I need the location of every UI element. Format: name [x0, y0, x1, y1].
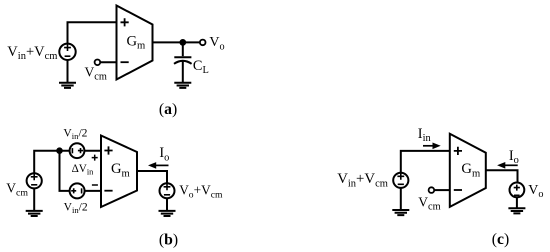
- voltage source V7 (Vo): [510, 183, 525, 198]
- node Vcm terminal: [95, 60, 101, 66]
- wire: [182, 42, 184, 56]
- svg-text:Io: Io: [509, 148, 519, 166]
- wire: [486, 170, 518, 182]
- op-amp U1 Gm: [117, 6, 153, 80]
- node plus mark: [92, 155, 98, 161]
- arrow Iin: [423, 145, 434, 147]
- svg-text:Gm: Gm: [111, 161, 131, 179]
- svg-text:Vo+Vcm: Vo+Vcm: [179, 182, 223, 200]
- wire: [67, 60, 69, 83]
- ground: [392, 210, 409, 215]
- svg-text:(b): (b): [159, 231, 178, 248]
- svg-text:Vcm: Vcm: [85, 64, 107, 82]
- node B: [56, 147, 63, 154]
- ground: [26, 211, 43, 216]
- voltage source V1 (Vin+Vcm): [59, 44, 75, 60]
- arrow Io: [504, 164, 518, 166]
- node minus mark: [92, 184, 98, 186]
- wire: [400, 188, 402, 210]
- ground: [59, 83, 76, 88]
- voltage source V6 (Vin+Vcm): [393, 173, 408, 188]
- wire: [153, 41, 200, 43]
- ground: [508, 208, 525, 213]
- svg-text:Io: Io: [159, 145, 169, 163]
- svg-text:Iin: Iin: [418, 126, 432, 144]
- wire: [182, 61, 184, 82]
- wire: [34, 151, 69, 174]
- node Vo terminal: [200, 40, 206, 46]
- wire: [100, 61, 116, 63]
- svg-text:ΔVin: ΔVin: [72, 163, 95, 177]
- svg-text:Vin+Vcm: Vin+Vcm: [7, 44, 57, 62]
- wire: [68, 22, 117, 43]
- ground: [159, 211, 176, 216]
- svg-text:Gm: Gm: [461, 161, 481, 179]
- node Vcm terminal: [429, 187, 435, 193]
- node A: [179, 39, 186, 46]
- svg-text:CL: CL: [193, 58, 209, 76]
- svg-text:Vcm: Vcm: [6, 181, 28, 199]
- wire: [166, 198, 168, 210]
- wire: [137, 171, 167, 183]
- svg-text:Vo: Vo: [528, 183, 543, 200]
- arrow Io: [155, 164, 169, 166]
- wire: [84, 150, 101, 152]
- svg-text:Vo: Vo: [209, 35, 224, 52]
- svg-text:(c): (c): [492, 231, 509, 248]
- wire: [85, 190, 101, 192]
- svg-text:Vin+Vcm: Vin+Vcm: [337, 171, 388, 189]
- voltage source V3 (Vin/2 top): [70, 143, 85, 158]
- voltage source V2 (Vcm): [27, 173, 42, 188]
- wire: [33, 188, 35, 210]
- svg-text:(a): (a): [159, 101, 177, 118]
- ground: [174, 83, 191, 88]
- wire: [516, 197, 518, 208]
- voltage source V4 (Vin/2 bottom): [70, 183, 85, 198]
- svg-text:Vin/2: Vin/2: [63, 126, 87, 141]
- voltage source V5 (Vo+Vcm): [160, 183, 175, 198]
- op-amp U2 Gm: [101, 136, 137, 208]
- op-amp U3 Gm: [450, 134, 486, 207]
- svg-text:Vcm: Vcm: [418, 195, 440, 213]
- capacitor C_L: [174, 56, 191, 58]
- wire: [434, 189, 450, 191]
- svg-text:Vin/2: Vin/2: [64, 200, 88, 215]
- svg-text:Gm: Gm: [127, 33, 147, 51]
- wire: [60, 151, 70, 191]
- wire: [401, 151, 450, 173]
